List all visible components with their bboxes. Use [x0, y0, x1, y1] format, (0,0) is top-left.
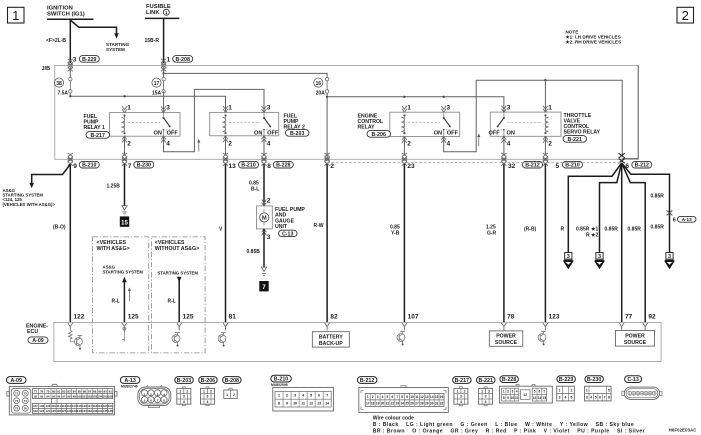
svg-text:B-230: B-230	[137, 163, 151, 169]
svg-text:123: 123	[39, 409, 44, 413]
svg-text:LINK: LINK	[146, 10, 160, 16]
dashed box vehicles without AS&G	[151, 237, 205, 353]
svg-text:2: 2	[286, 394, 288, 398]
connector drawing B-203	[175, 377, 194, 406]
relay U4 pin numbers	[507, 105, 553, 148]
svg-text:1: 1	[456, 389, 458, 393]
svg-text:B-208: B-208	[225, 378, 239, 384]
svg-text:BACK-UP: BACK-UP	[319, 341, 343, 347]
svg-text:15: 15	[435, 395, 439, 399]
svg-text:ON: ON	[507, 131, 515, 137]
starting system label	[106, 42, 130, 52]
transistor at pin 81	[218, 333, 226, 347]
wire: R-L to ECU pin 125 without AS&G	[168, 277, 194, 323]
wire: fuse 17 to relay 1 pin 3	[163, 91, 165, 112]
svg-text:71: 71	[15, 391, 19, 395]
svg-text:B-212: B-212	[635, 163, 649, 169]
wire: junction to fuse 16	[164, 73, 328, 77]
svg-text:ON: ON	[154, 131, 162, 137]
svg-text:G-R: G-R	[487, 230, 497, 236]
flow arrow up	[197, 139, 200, 152]
resistor and transistor at pin 122	[69, 330, 83, 349]
svg-text:88: 88	[93, 389, 97, 393]
svg-text:3: 3	[377, 395, 379, 399]
svg-text:R-L: R-L	[168, 299, 176, 305]
relay U2 fuel pump relay 2 body	[210, 106, 279, 142]
svg-text:78: 78	[507, 314, 515, 321]
svg-text:3: 3	[73, 57, 77, 64]
svg-text:<VEHICLES: <VEHICLES	[97, 240, 127, 246]
relay U3 label B-206	[358, 114, 391, 138]
svg-text:32: 32	[508, 163, 516, 170]
svg-text:1: 1	[203, 389, 205, 393]
svg-text:19: 19	[376, 402, 380, 406]
connector pin 1 B-208	[161, 56, 193, 72]
svg-text:3: 3	[586, 396, 588, 400]
wire: fuse 16 output bus	[326, 93, 504, 159]
engine-ECU box A-09	[26, 322, 661, 361]
svg-text:2: 2	[488, 389, 490, 393]
svg-text:72: 72	[24, 391, 28, 395]
svg-text:97: 97	[62, 394, 66, 398]
svg-text:MU802746: MU802746	[121, 384, 138, 388]
svg-text:10: 10	[293, 402, 297, 406]
svg-text:2: 2	[228, 141, 232, 148]
svg-text:Y-B: Y-B	[391, 230, 400, 236]
svg-text:4: 4	[460, 400, 462, 404]
svg-text:7.5A: 7.5A	[57, 91, 68, 97]
connector 32 B-212 on J/B row	[501, 153, 542, 170]
svg-text:107: 107	[408, 314, 419, 321]
svg-text:ECU: ECU	[27, 329, 38, 335]
svg-text:7: 7	[396, 395, 398, 399]
svg-text:5: 5	[556, 163, 560, 170]
svg-text:22: 22	[391, 402, 395, 406]
svg-text:123: 123	[549, 314, 560, 321]
svg-text:B-217: B-217	[90, 133, 104, 139]
svg-text:108: 108	[39, 404, 44, 408]
svg-text:6: 6	[673, 217, 676, 223]
wire: 0.85R to ECU pin 77	[605, 163, 633, 322]
relay U4 throttle valve control servo relay body	[489, 106, 561, 143]
ground reference arrow 3 (0.85R)	[595, 253, 604, 268]
svg-text:13: 13	[317, 402, 321, 406]
svg-text:5: 5	[595, 396, 597, 400]
svg-text:30: 30	[430, 402, 434, 406]
connector 13 B-210 on J/B row	[223, 153, 259, 170]
svg-text:136: 136	[108, 409, 113, 413]
svg-text:1: 1	[503, 390, 505, 394]
svg-text:BR : Brown O : Orange GR: BR : Brown O : Orange GR : Grey R : Red …	[373, 429, 645, 435]
svg-text:81: 81	[229, 314, 237, 321]
svg-text:SERVO RELAY: SERVO RELAY	[564, 130, 601, 136]
svg-text:★2: ★2	[591, 233, 598, 239]
svg-text:3: 3	[166, 105, 170, 112]
svg-text:4: 4	[447, 141, 451, 148]
svg-text:H6F02E03AC: H6F02E03AC	[669, 427, 697, 432]
wire: 0.85R via 6 A-13 to ground	[622, 163, 670, 253]
wire: branch to starting system	[70, 20, 119, 39]
svg-text:B : Black LG : Light green: B : Black LG : Light green G : Green L :…	[373, 422, 634, 428]
svg-text:6: 6	[391, 395, 393, 399]
wire: arrow to AS&G starting system	[29, 164, 70, 188]
connector drawing B-229	[557, 376, 576, 401]
svg-text:12: 12	[309, 402, 313, 406]
wire: fusible link feed down 15B-R	[163, 18, 165, 63]
svg-text:Wire colour code: Wire colour code	[373, 415, 414, 421]
svg-text:A-09: A-09	[10, 378, 22, 384]
svg-text:20A: 20A	[316, 91, 326, 97]
wire: engine relay pin4 to throttle coil and 6 B-212	[444, 79, 623, 156]
svg-text:A-09: A-09	[32, 338, 44, 344]
transistor at pin 125	[172, 333, 180, 347]
relay U4 label B-221	[563, 113, 601, 143]
svg-text:B-212: B-212	[360, 378, 374, 384]
svg-text:3: 3	[485, 395, 487, 399]
svg-text:WITH AS&G>: WITH AS&G>	[97, 246, 130, 252]
ground reference arrow 3 (R)	[564, 253, 573, 268]
svg-text:11: 11	[301, 402, 305, 406]
ground 15	[120, 206, 129, 227]
svg-text:90: 90	[103, 389, 107, 393]
connector 5 B-210 on J/B row	[543, 153, 583, 170]
svg-text:84: 84	[73, 389, 77, 393]
svg-text:5: 5	[387, 395, 389, 399]
svg-text:28: 28	[420, 402, 424, 406]
svg-text:11: 11	[515, 396, 519, 400]
ground reference arrow 3 (A-13)	[665, 253, 674, 268]
svg-text:1: 1	[407, 105, 411, 112]
wire colour code legend	[373, 415, 645, 434]
connector drawing C-13	[622, 376, 662, 400]
svg-text:1: 1	[179, 389, 181, 393]
svg-text:2: 2	[267, 198, 271, 205]
svg-text:5: 5	[534, 390, 536, 394]
svg-text:107: 107	[33, 404, 38, 408]
svg-text:12: 12	[420, 395, 424, 399]
svg-text:OFF: OFF	[489, 131, 501, 137]
junction block J/B outline	[42, 65, 639, 159]
svg-text:3: 3	[183, 395, 185, 399]
svg-text:81: 81	[57, 389, 61, 393]
svg-text:B-228: B-228	[276, 163, 290, 169]
svg-text:3: 3	[447, 105, 451, 112]
svg-text:1.25B: 1.25B	[107, 184, 121, 190]
svg-text:106: 106	[108, 394, 113, 398]
svg-text:SOURCE: SOURCE	[624, 340, 647, 346]
svg-text:9: 9	[286, 402, 288, 406]
connector pin 3 B-229	[68, 56, 100, 72]
flow arrow up	[477, 134, 480, 147]
svg-text:18: 18	[371, 402, 375, 406]
svg-text:77: 77	[625, 314, 633, 321]
svg-text:B-210: B-210	[82, 163, 96, 169]
svg-text:5: 5	[310, 394, 312, 398]
svg-text:79: 79	[46, 389, 50, 393]
svg-text:82: 82	[62, 389, 66, 393]
svg-text:23: 23	[395, 402, 399, 406]
svg-text:7: 7	[543, 390, 545, 394]
relay U1 fuel pump relay 1 body	[110, 106, 181, 142]
ECU pin posts	[68, 323, 648, 330]
svg-text:121: 121	[108, 404, 113, 408]
svg-text:7: 7	[604, 396, 606, 400]
svg-text:87: 87	[88, 389, 92, 393]
svg-text:4: 4	[302, 394, 304, 398]
svg-text:99: 99	[73, 394, 77, 398]
svg-text:2: 2	[127, 141, 131, 148]
wire: (B-O) to ECU pin 122	[53, 164, 85, 322]
svg-text:91: 91	[109, 389, 113, 393]
svg-text:2: 2	[548, 141, 552, 148]
svg-text:3: 3	[559, 396, 561, 400]
wire: 6 B-212 branch 0.85R to ground	[576, 163, 622, 253]
svg-text:85: 85	[78, 389, 82, 393]
svg-text:B-210: B-210	[241, 163, 255, 169]
svg-text:4: 4	[183, 400, 185, 404]
svg-text:96: 96	[57, 394, 61, 398]
stub at pin 125 AS&G	[122, 327, 126, 341]
battery back-up box at pin 82	[312, 332, 349, 347]
relay U1 pin numbers	[127, 105, 170, 148]
svg-text:IGNITION: IGNITION	[47, 5, 73, 11]
svg-text:POWER: POWER	[625, 333, 645, 339]
off-page reference box 2	[677, 7, 694, 23]
wire: (R-B) to ECU pin 123	[524, 164, 560, 322]
svg-text:<F>2L-B: <F>2L-B	[46, 38, 66, 44]
svg-text:2: 2	[372, 395, 374, 399]
connector 6 A-13	[667, 210, 696, 223]
wire: engine relay pin2 to row	[403, 137, 405, 156]
wire: R-W to ECU pin 82	[314, 164, 339, 322]
svg-text:1: 1	[12, 8, 19, 23]
svg-text:17: 17	[366, 402, 370, 406]
wire: B-229 to fuse 38	[69, 67, 71, 77]
svg-text:B-221: B-221	[567, 137, 581, 143]
wire: 1.25 G-R to ECU pin 78	[486, 164, 515, 322]
svg-text:1: 1	[127, 105, 131, 112]
svg-text:14: 14	[538, 396, 542, 400]
relay U3 pin numbers	[407, 105, 450, 148]
svg-text:2: 2	[682, 8, 689, 23]
svg-text:1: 1	[367, 395, 369, 399]
svg-text:4: 4	[564, 396, 566, 400]
svg-text:SOURCE: SOURCE	[495, 340, 518, 346]
svg-text:83: 83	[67, 389, 71, 393]
svg-text:3: 3	[460, 395, 462, 399]
svg-text:B-206: B-206	[371, 132, 385, 138]
svg-text:<VEHICLES: <VEHICLES	[155, 240, 185, 246]
svg-text:R: R	[561, 226, 565, 232]
svg-text:8: 8	[278, 402, 280, 406]
svg-text:31: 31	[435, 402, 439, 406]
svg-text:7: 7	[128, 163, 132, 170]
svg-text:1: 1	[548, 105, 552, 112]
svg-text:15: 15	[121, 220, 128, 227]
svg-text:4: 4	[267, 141, 271, 148]
connector drawing B-212	[357, 377, 448, 413]
wire: relay2 pin4 to row	[263, 136, 265, 156]
power source box at pin 78	[489, 331, 523, 346]
svg-text:7: 7	[262, 284, 266, 291]
svg-text:16: 16	[316, 81, 322, 87]
svg-text:8: 8	[401, 395, 403, 399]
ignition switch (IG1) label	[47, 5, 85, 17]
connector drawing B-221	[477, 377, 496, 406]
svg-text:15: 15	[542, 396, 546, 400]
svg-text:124: 124	[45, 409, 50, 413]
connector drawing B-217	[453, 377, 472, 406]
svg-text:OFF: OFF	[447, 131, 459, 137]
AS&G starting system arrow label	[103, 265, 144, 275]
fuel pump label	[275, 207, 305, 238]
svg-text:A-13: A-13	[124, 378, 136, 384]
svg-text:75: 75	[15, 406, 19, 410]
note text	[566, 29, 622, 44]
svg-text:9: 9	[507, 396, 509, 400]
svg-text:1: 1	[586, 388, 588, 392]
flow arrow up	[128, 288, 131, 302]
svg-text:C-13: C-13	[627, 377, 639, 383]
svg-text:4: 4	[207, 400, 209, 404]
off-page reference box 1	[8, 7, 25, 23]
svg-text:SYSTEM: SYSTEM	[106, 47, 125, 52]
svg-text:ON: ON	[434, 131, 442, 137]
svg-text:10: 10	[511, 396, 515, 400]
dashed harness line on row	[327, 162, 622, 164]
wire: 0.85R to ECU pin 92	[622, 163, 656, 322]
connector drawing B-208	[223, 377, 242, 399]
relay U3 engine control relay body	[390, 106, 460, 143]
svg-text:0.85B: 0.85B	[247, 249, 261, 255]
svg-text:SWITCH (IG1): SWITCH (IG1)	[47, 12, 85, 18]
svg-text:122: 122	[33, 409, 38, 413]
svg-text:OFF: OFF	[267, 131, 279, 137]
svg-text:POWER: POWER	[496, 334, 516, 340]
svg-text:6: 6	[599, 396, 601, 400]
wire: V to ECU pin 81	[219, 164, 236, 322]
svg-text:29: 29	[425, 402, 429, 406]
svg-text:MU802595: MU802595	[271, 383, 288, 387]
connector drawing A-09	[7, 377, 118, 415]
svg-text:2: 2	[507, 390, 509, 394]
svg-text:0.85R: 0.85R	[576, 226, 590, 232]
ignition switch bar	[47, 18, 94, 20]
svg-text:2: 2	[407, 141, 411, 148]
svg-text:89: 89	[98, 389, 102, 393]
connector 9 B-210 on J/B row	[68, 153, 100, 170]
relay U1 label B-217	[84, 114, 110, 139]
connector drawing B-206	[199, 377, 218, 406]
svg-text:4: 4	[485, 400, 487, 404]
connector 8 B-228 on J/B row	[261, 153, 293, 170]
wire: IG1 feed down	[69, 19, 71, 63]
svg-text:13: 13	[229, 163, 237, 170]
svg-text:★1: ★1	[591, 226, 598, 232]
svg-text:1: 1	[278, 394, 280, 398]
svg-text:OFF: OFF	[167, 131, 179, 137]
svg-text:2: 2	[463, 389, 465, 393]
svg-text:RELAY 1: RELAY 1	[84, 125, 105, 131]
svg-text:14: 14	[430, 395, 434, 399]
svg-text:0.85R: 0.85R	[651, 194, 665, 200]
svg-text:★2: RH DRIVE VEHICLES: ★2: RH DRIVE VEHICLES	[566, 40, 622, 45]
svg-text:80: 80	[52, 389, 56, 393]
relay U2 pin numbers	[228, 105, 270, 148]
wire: throttle relay pin2 to row	[544, 136, 546, 155]
svg-text:4: 4	[590, 396, 592, 400]
svg-text:8: 8	[267, 163, 271, 170]
svg-text:14: 14	[325, 402, 329, 406]
svg-text:(B-O): (B-O)	[53, 224, 66, 230]
svg-text:13: 13	[533, 396, 537, 400]
svg-text:7: 7	[326, 394, 328, 398]
svg-text:M: M	[262, 216, 267, 222]
fuse 16 20A	[314, 77, 329, 96]
svg-text:B-229: B-229	[559, 377, 573, 383]
svg-text:78: 78	[40, 389, 44, 393]
svg-text:76: 76	[24, 406, 28, 410]
svg-text:STARTING SYSTEM: STARTING SYSTEM	[103, 269, 144, 274]
svg-text:BATTERY: BATTERY	[319, 334, 343, 340]
svg-text:11: 11	[415, 395, 419, 399]
svg-text:(VEHICLES WITH AS&G)>: (VEHICLES WITH AS&G)>	[3, 202, 56, 207]
fusible link bar	[145, 17, 179, 19]
svg-text:38: 38	[56, 81, 62, 87]
svg-text:24: 24	[400, 402, 404, 406]
connector pin 2 on J/B row	[325, 153, 335, 170]
svg-text:R: R	[586, 233, 590, 239]
svg-text:0.85R: 0.85R	[651, 225, 665, 231]
connector drawing B-210	[271, 375, 334, 411]
svg-text:25: 25	[405, 402, 409, 406]
svg-text:122: 122	[74, 314, 85, 321]
svg-text:R-W: R-W	[314, 223, 324, 229]
svg-text:B-212: B-212	[525, 163, 539, 169]
svg-text:B-229: B-229	[82, 57, 96, 63]
svg-text:0.85R: 0.85R	[628, 226, 642, 232]
svg-text:74: 74	[24, 399, 28, 403]
svg-text:2: 2	[210, 389, 212, 393]
svg-text:16: 16	[440, 395, 444, 399]
svg-text:B-221: B-221	[478, 378, 492, 384]
svg-text:125: 125	[128, 314, 139, 321]
svg-text:3: 3	[294, 394, 296, 398]
svg-text:B-203: B-203	[290, 131, 304, 137]
svg-text:1: 1	[226, 393, 228, 397]
wire: 1.25B to ground 15	[107, 164, 125, 205]
power source box at pins 77 92	[615, 331, 654, 347]
svg-text:10: 10	[410, 395, 414, 399]
connector drawing A-13	[120, 377, 170, 408]
fuse 38 7.5A	[54, 77, 72, 96]
svg-text:9: 9	[406, 395, 408, 399]
wire: 0.85 B-L to fuel pump	[249, 164, 271, 206]
wire: throttle relay pin4 to row	[503, 136, 505, 155]
wire: 0.85B to ground 7	[247, 229, 271, 267]
svg-text:A-13: A-13	[682, 217, 692, 222]
svg-text:15A: 15A	[152, 91, 162, 97]
wire: R-L to ECU pin 125 with AS&G	[112, 277, 140, 323]
svg-text:92: 92	[648, 314, 656, 321]
svg-text:1: 1	[165, 10, 168, 15]
svg-text:82: 82	[330, 314, 338, 321]
transistor at pin 123	[538, 331, 546, 345]
svg-text:86: 86	[83, 389, 87, 393]
wire: relay2 pin2 to row	[225, 136, 227, 156]
svg-text:C-13: C-13	[282, 231, 294, 237]
svg-text:2: 2	[570, 388, 572, 392]
